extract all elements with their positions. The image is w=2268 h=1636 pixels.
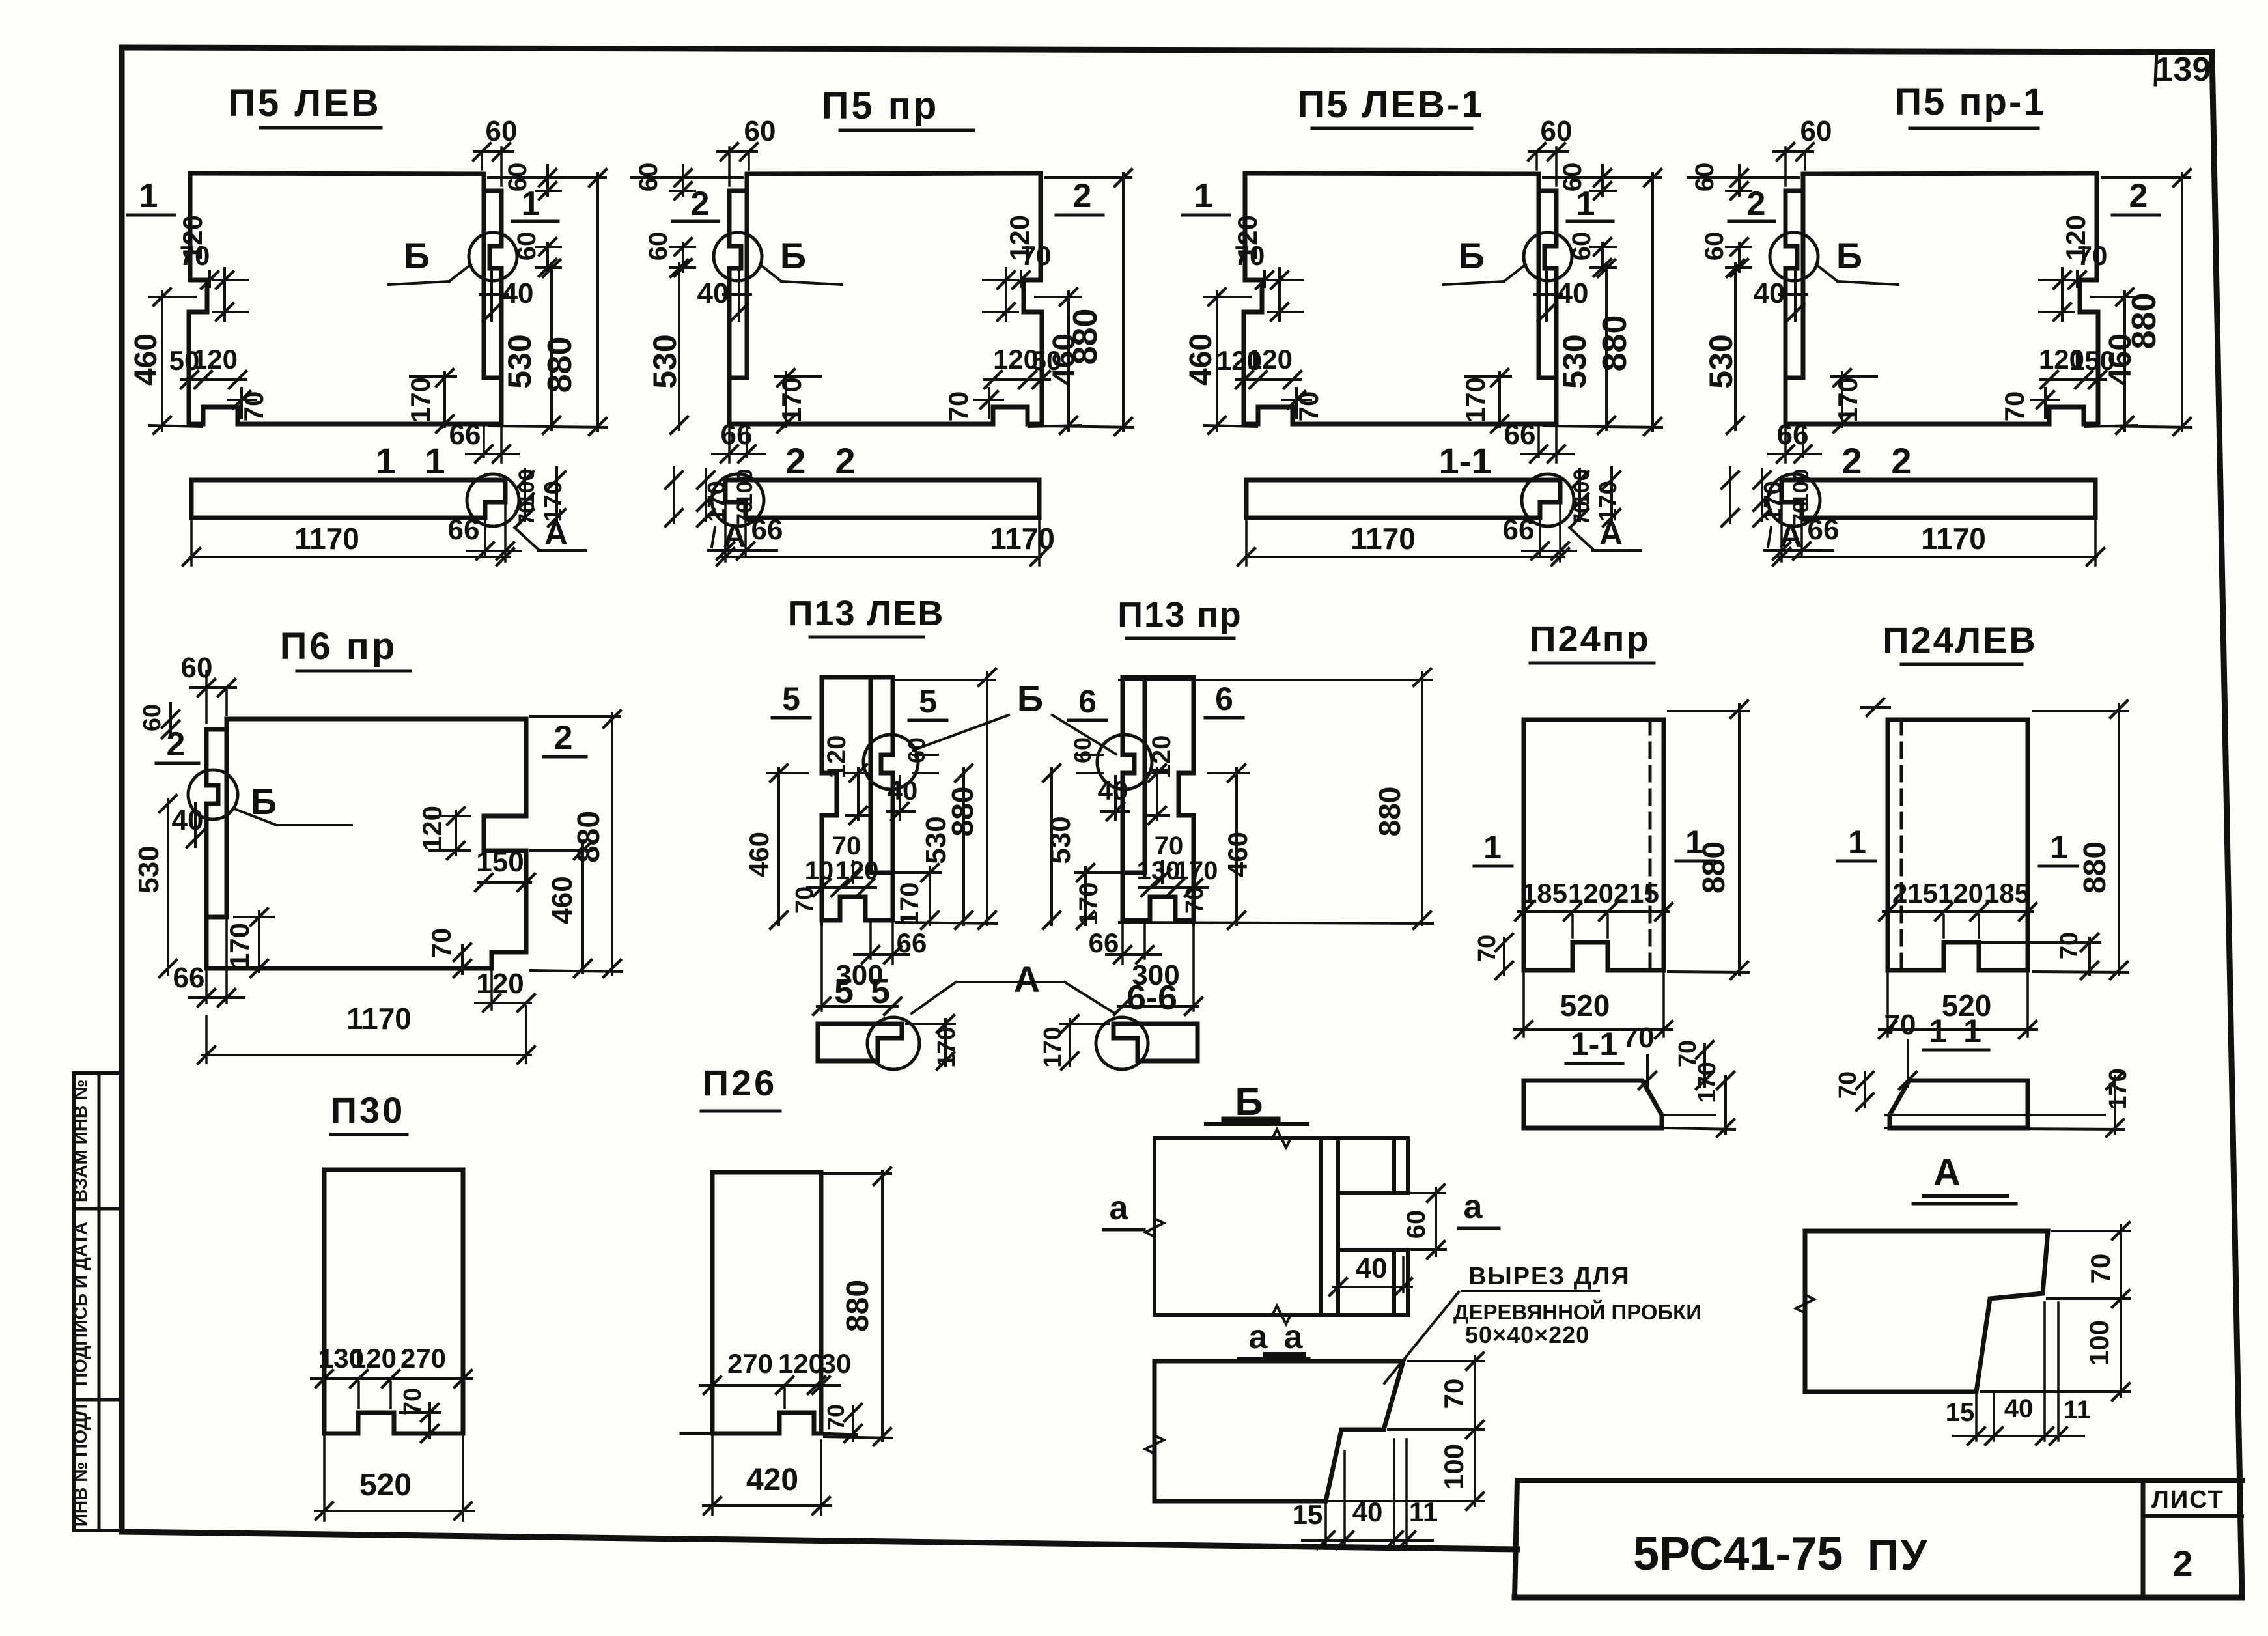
svg-text:1: 1 (1576, 185, 1595, 223)
svg-text:120: 120 (192, 344, 238, 374)
П6 пр dimension 460 right (581, 845, 584, 973)
П5 ПР plan strip outline (725, 480, 1039, 518)
П5 ПР-1 plan dimension 66 (1800, 520, 1803, 555)
svg-text:460: 460 (546, 876, 578, 924)
svg-text:880: 880 (1596, 315, 1634, 372)
svg-text:530: 530 (1044, 816, 1076, 864)
svg-text:70: 70 (1999, 391, 2030, 422)
svg-text:66: 66 (1808, 514, 1840, 546)
svg-text:6-6: 6-6 (1127, 978, 1177, 1017)
svg-text:2: 2 (691, 185, 710, 223)
svg-text:460: 460 (1222, 832, 1253, 877)
svg-text:2: 2 (554, 719, 573, 757)
svg-text:1: 1 (425, 440, 445, 481)
svg-text:70: 70 (1293, 391, 1324, 422)
svg-text:170: 170 (405, 377, 436, 423)
svg-text:70: 70 (1834, 1071, 1862, 1099)
П30 dimension 520 (323, 1437, 326, 1521)
svg-text:Б: Б (780, 235, 806, 276)
П24 пр profile section outline (1524, 1080, 1662, 1128)
svg-text:40: 40 (888, 775, 918, 806)
panel П13 ПР outline (1123, 677, 1145, 873)
П5 ПР dimension 460 left (1067, 292, 1070, 431)
svg-text:100: 100 (733, 469, 757, 506)
svg-text:880: 880 (572, 811, 606, 863)
svg-text:170: 170 (1039, 1026, 1067, 1067)
detail Б groove walls (1319, 1138, 1323, 1315)
svg-text:5: 5 (782, 681, 800, 717)
П13 ЛЕВ strip detail circle (867, 1017, 919, 1069)
П5 ПР-1 dimension 530 right (1734, 264, 1737, 430)
note leader line (1462, 1290, 1599, 1292)
П5 ЛЕВ label Б with leader (389, 281, 449, 285)
detail А outline (1805, 1231, 2048, 1392)
П5 ПР dimension 880 right (1122, 173, 1125, 431)
П5 ЛЕВ-1 section mark 1 (left) (1183, 214, 1229, 217)
svg-text:880: 880 (1373, 787, 1407, 837)
svg-text:Б: Б (1459, 235, 1485, 276)
panel П24 пр outline (1524, 720, 1664, 970)
svg-text:П24ЛЕВ: П24ЛЕВ (1883, 619, 2037, 660)
svg-text:70: 70 (514, 501, 539, 526)
П6 пр dimension 530 left (167, 800, 169, 974)
svg-text:2: 2 (785, 440, 805, 481)
svg-text:530: 530 (501, 334, 538, 388)
П24 ЛЕВ dimension 880 (2118, 705, 2120, 975)
П13 ЛЕВ strip dimension 170 (944, 1019, 947, 1065)
svg-text:11: 11 (1409, 1497, 1438, 1527)
svg-text:185: 185 (1522, 878, 1567, 909)
svg-text:5: 5 (919, 683, 937, 720)
svg-text:2: 2 (835, 440, 855, 481)
detail Б dimension 60 (1435, 1188, 1437, 1256)
П24 пр dimension 880 (1738, 705, 1741, 975)
svg-text:П30: П30 (331, 1090, 406, 1131)
svg-text:215: 215 (1614, 878, 1659, 909)
svg-text:60: 60 (181, 652, 213, 684)
svg-text:2: 2 (1747, 185, 1766, 223)
svg-text:5РС41-75: 5РС41-75 (1633, 1528, 1843, 1580)
svg-text:170: 170 (776, 377, 807, 423)
svg-text:120: 120 (1568, 878, 1614, 909)
svg-text:66: 66 (897, 927, 927, 958)
П5 ЛЕВ-1 plan detail circle А (1522, 474, 1574, 526)
svg-text:170: 170 (540, 481, 567, 522)
П5 ЛЕВ-1 label Б with leader (1444, 281, 1504, 285)
svg-text:120: 120 (778, 1348, 824, 1379)
П13 ЛЕВ dimension 880 rotated (986, 672, 988, 925)
svg-text:П5 пр-1: П5 пр-1 (1894, 81, 2046, 123)
svg-text:П5 пр: П5 пр (822, 85, 940, 127)
svg-text:60: 60 (1069, 737, 1096, 763)
svg-text:70: 70 (1438, 1379, 1469, 1409)
svg-text:А: А (1933, 1151, 1961, 1194)
П5 ПР-1 section mark 2 (right) (1729, 220, 1774, 223)
panel П30 outline (324, 1170, 463, 1433)
П5 ПР-1 dimension 70 bottom notch (2044, 388, 2047, 418)
svg-text:П13 пр: П13 пр (1117, 595, 1242, 634)
П13 ЛЕВ detail circle Б (863, 735, 918, 789)
П5 ПР plan dimensions 100 70 170 right (705, 469, 707, 521)
svg-text:150: 150 (476, 846, 524, 878)
П5 ЛЕВ-1 dimension 70 bottom notch (1295, 388, 1298, 418)
П5 ПР-1 plan dimensions 100 70 170 right (1761, 469, 1763, 521)
svg-text:2: 2 (1891, 440, 1911, 481)
svg-text:40: 40 (502, 277, 534, 309)
svg-text:70: 70 (1021, 240, 1052, 271)
П5 ПР section mark 2 (left) (1056, 214, 1103, 217)
П24 пр dimension 520 (1522, 974, 1525, 1037)
П5 ПР top reference line right (632, 176, 742, 179)
П5 ЛЕВ-1 label А with leader and underline (1569, 528, 1593, 549)
П5 ЛЕВ plan dimension 66 (484, 520, 486, 555)
svg-text:Б: Б (1017, 678, 1043, 719)
svg-text:120: 120 (993, 344, 1039, 374)
svg-text:60: 60 (1402, 1210, 1431, 1239)
П5 ПР-1 plan dimension 1170 (2094, 521, 2097, 565)
П13 ПР section marks 6 (1205, 716, 1243, 720)
svg-text:66: 66 (173, 962, 205, 994)
svg-text:100: 100 (1569, 469, 1594, 506)
П13 ПР strip dimension 170 (1069, 1019, 1071, 1065)
П5 ЛЕВ-1 dimension 530 right (1605, 264, 1608, 430)
svg-text:40: 40 (1557, 277, 1589, 309)
svg-text:1: 1 (1963, 1013, 1981, 1049)
svg-text:1170: 1170 (294, 522, 359, 556)
svg-text:ВЗАМ ИНВ №: ВЗАМ ИНВ № (70, 1080, 91, 1202)
П6 пр dimension 66 below left (205, 972, 208, 1003)
П5 ЛЕВ-1 section mark 1 (right) (1567, 220, 1613, 223)
П5 ЛЕВ-1 plan dimension 1170 (1245, 521, 1248, 565)
П6 пр detail circle Б (188, 770, 238, 819)
П5 ПР plan dimension 1170 (1038, 521, 1041, 565)
П5 ПР-1 dimension 460 left (2123, 292, 2126, 431)
svg-text:880: 880 (1697, 841, 1731, 894)
svg-text:40: 40 (1356, 1252, 1388, 1284)
panel П5 ПР elevation outline (729, 173, 1041, 378)
svg-text:70: 70 (1569, 501, 1594, 526)
left attachment column boxes (74, 1073, 122, 1530)
П13 ЛЕВ dimension 460 left (777, 769, 780, 925)
П5 ЛЕВ plan dimension 1170 (190, 521, 193, 565)
П13 ЛЕВ section marks 5 (772, 716, 810, 720)
П13 ЛЕВ dimension 300 (820, 924, 823, 1011)
svg-text:11: 11 (2064, 1396, 2091, 1424)
svg-text:120: 120 (2039, 344, 2084, 374)
svg-text:70: 70 (943, 391, 973, 422)
svg-text:60: 60 (634, 163, 663, 192)
svg-text:1170: 1170 (990, 522, 1055, 556)
svg-text:70: 70 (822, 1404, 849, 1430)
detail Б key profile right (1392, 1138, 1396, 1193)
П5 ЛЕВ top reference line right (488, 176, 599, 179)
svg-text:60: 60 (1541, 115, 1573, 147)
П5 ПР dimension 170 (bottom step) (785, 373, 787, 427)
svg-text:5: 5 (834, 972, 854, 1011)
svg-text:П13 ЛЕВ: П13 ЛЕВ (788, 594, 945, 633)
П5 ПР dimension 60/60/40 stack right (682, 165, 684, 195)
svg-text:2: 2 (167, 726, 186, 763)
svg-text:Б: Б (404, 235, 430, 276)
П5 ПР dimension 60 (top) (718, 150, 757, 153)
svg-text:185: 185 (1984, 878, 2030, 909)
П5 ЛЕВ dimension 530 right (550, 264, 553, 430)
П5 ЛЕВ-1 dimension 170 (bottom step) (1498, 373, 1501, 427)
svg-text:60: 60 (1690, 163, 1719, 192)
svg-text:139: 139 (2155, 51, 2211, 89)
svg-text:530: 530 (647, 334, 683, 388)
svg-text:66: 66 (1504, 419, 1536, 451)
svg-text:6: 6 (1078, 683, 1097, 720)
svg-text:120: 120 (351, 1343, 397, 1374)
svg-text:460: 460 (129, 333, 163, 386)
П13 ПР dimension 880 rotated (1421, 672, 1423, 925)
panel П24 ЛЕВ outline (1888, 720, 2028, 970)
svg-text:Б: Б (251, 781, 277, 822)
svg-text:530: 530 (1556, 334, 1593, 388)
detail Б outline box (1155, 1136, 1408, 1140)
svg-text:66: 66 (751, 514, 783, 546)
П5 ЛЕВ dimension 880 right (596, 173, 599, 431)
П6 пр dimension 1170 (205, 1016, 208, 1063)
svg-text:40: 40 (697, 277, 729, 309)
П5 ЛЕВ dimension 170 (bottom step) (443, 373, 446, 427)
svg-text:170: 170 (895, 882, 924, 926)
svg-text:66: 66 (721, 419, 753, 451)
П5 ПР plan detail circle А (712, 474, 764, 526)
П5 ПР label А with leader and underline (712, 528, 715, 547)
П13 ПР strip detail circle (1096, 1017, 1148, 1069)
svg-text:1170: 1170 (1351, 522, 1416, 556)
svg-text:170: 170 (1694, 1062, 1721, 1103)
svg-text:50×40×220: 50×40×220 (1465, 1321, 1589, 1348)
П6 пр dimension 880 right (611, 714, 613, 974)
detail А dimension 70 100 right (2120, 1226, 2122, 1396)
panel П26 outline (712, 1172, 821, 1433)
svg-text:120: 120 (417, 806, 447, 851)
а-а dimensions 15 40 11 bottom (1324, 1504, 1327, 1547)
П5 ПР-1 dimension 170 (bottom step) (1841, 373, 1843, 427)
svg-text:520: 520 (1560, 989, 1610, 1022)
svg-text:880: 880 (541, 337, 579, 393)
П13 ПР detail circle Б (1097, 735, 1152, 789)
svg-text:1: 1 (1483, 829, 1502, 866)
svg-text:170: 170 (1832, 377, 1863, 423)
svg-text:40: 40 (1352, 1497, 1383, 1527)
П5 ПР plan dimension 66 (744, 520, 747, 555)
svg-text:40: 40 (2004, 1394, 2034, 1423)
svg-text:70: 70 (238, 391, 269, 422)
svg-text:1-1: 1-1 (1439, 440, 1492, 481)
svg-text:ИНВ № ПОДЛ: ИНВ № ПОДЛ (70, 1404, 91, 1527)
panel П6 пр elevation outline (206, 719, 526, 917)
П5 ПР label Б with leader (781, 281, 842, 285)
svg-text:66: 66 (1089, 927, 1119, 958)
svg-text:а: а (1284, 1318, 1304, 1356)
svg-text:66: 66 (448, 514, 480, 546)
svg-text:60: 60 (1700, 232, 1729, 261)
title block ЛИСТ box (2141, 1480, 2146, 1598)
svg-text:66: 66 (1777, 419, 1809, 451)
svg-text:100: 100 (514, 469, 539, 506)
svg-text:6: 6 (1215, 681, 1233, 717)
П5 ЛЕВ-1 detail circle Б (1524, 233, 1572, 281)
П5 ПР dimension 120 left top (1005, 268, 1007, 320)
svg-text:120: 120 (1938, 878, 1983, 909)
П5 ПР dimension 530 right (678, 264, 680, 430)
П13 ЛЕВ section strip outline (818, 1024, 902, 1061)
svg-text:40: 40 (172, 804, 204, 836)
panel П13 ЛЕВ outline (871, 677, 893, 873)
П6 пр label Б with leader (234, 809, 277, 825)
П13 ЛЕВ dimension 530 rotated (962, 769, 965, 925)
svg-text:П26: П26 (703, 1062, 777, 1103)
svg-text:1-1: 1-1 (1571, 1026, 1617, 1062)
drawing frame border (122, 48, 2212, 52)
П5 ПР-1 plan detail circle А (1768, 474, 1820, 526)
svg-text:2: 2 (2172, 1543, 2192, 1584)
svg-text:70: 70 (2085, 1254, 2116, 1284)
П24 пр section marks 1 (1474, 865, 1512, 868)
П13 ПР dimension 66 below (1143, 924, 1146, 959)
section а-а outline (1155, 1361, 1403, 1501)
svg-text:1: 1 (522, 185, 540, 223)
svg-text:1: 1 (139, 177, 158, 215)
svg-text:Б: Б (1836, 235, 1862, 276)
svg-text:П5 ЛЕВ-1: П5 ЛЕВ-1 (1298, 83, 1485, 126)
П24 ЛЕВ profile section outline (1890, 1080, 2028, 1128)
П24 ЛЕВ section marks 1 (2039, 865, 2077, 868)
svg-text:270: 270 (400, 1343, 446, 1374)
svg-text:170: 170 (1595, 481, 1622, 522)
П5 ПР-1 dimension 60 (top) (1774, 150, 1813, 153)
П5 ЛЕВ-1 dimension 60/60/40 stack right (1601, 165, 1604, 195)
panel П5 ПР-1 elevation outline (1785, 173, 2097, 378)
svg-text:66: 66 (449, 419, 481, 451)
svg-text:ПУ: ПУ (1868, 1530, 1929, 1579)
П24 пр hidden line (dashed) (1649, 720, 1652, 970)
svg-text:70: 70 (1623, 1022, 1655, 1054)
П5 ЛЕВ-1 dimension 120 left top (1278, 268, 1281, 320)
П5 ЛЕВ-1 dimension 880 right (1651, 173, 1654, 431)
П13 ЛЕВ dimension 66 below (869, 924, 872, 959)
svg-text:60: 60 (1567, 232, 1596, 261)
П5 ПР-1 dimension 66 below (1802, 427, 1804, 457)
svg-text:880: 880 (945, 787, 979, 837)
svg-text:120: 120 (1247, 344, 1293, 374)
svg-text:530: 530 (133, 845, 165, 893)
svg-text:70: 70 (1884, 1009, 1916, 1041)
П5 ПР-1 detail circle Б (1770, 233, 1818, 281)
П5 ЛЕВ-1 dimension 60 (top) (1529, 150, 1568, 153)
svg-text:70: 70 (180, 240, 210, 271)
svg-text:70: 70 (1235, 240, 1265, 271)
П5 ЛЕВ dimension 120 left top (223, 268, 226, 320)
svg-text:ДЕРЕВЯННОЙ ПРОБКИ: ДЕРЕВЯННОЙ ПРОБКИ (1453, 1299, 1701, 1324)
П13 ПР dimension 300 (1192, 924, 1195, 1011)
svg-text:66: 66 (1503, 514, 1535, 546)
svg-text:ВЫРЕЗ ДЛЯ: ВЫРЕЗ ДЛЯ (1468, 1263, 1631, 1290)
svg-text:а: а (1249, 1318, 1268, 1356)
svg-text:100: 100 (1438, 1444, 1469, 1489)
svg-text:1: 1 (1194, 177, 1213, 215)
svg-text:1: 1 (375, 440, 395, 481)
П5 ЛЕВ-1 top reference line right (1543, 176, 1654, 179)
svg-text:П6 пр: П6 пр (280, 625, 398, 668)
svg-text:1170: 1170 (1921, 522, 1986, 556)
П5 ЛЕВ detail circle Б (469, 233, 517, 281)
svg-text:170: 170 (933, 1026, 960, 1067)
svg-text:ЛИСТ: ЛИСТ (2151, 1486, 2224, 1514)
detail А dimensions 15 40 11 bottom (1975, 1395, 1978, 1441)
П6 пр dimension 60 top (190, 686, 236, 689)
svg-text:530: 530 (1703, 334, 1739, 388)
panel П5 ЛЕВ-1 elevation outline (1245, 173, 1556, 378)
П5 ПР-1 section mark 2 (left) (2112, 214, 2159, 217)
П5 ПР-1 dimension 880 right (2181, 173, 2183, 431)
П5 ПР-1 dimension 120 left top (2061, 268, 2064, 320)
П5 ЛЕВ dimension 460 left (161, 292, 163, 431)
svg-text:40: 40 (1754, 277, 1785, 309)
svg-text:60: 60 (1800, 115, 1832, 147)
П5 ЛЕВ-1 plan dimension 66 (1539, 520, 1541, 555)
П5 ЛЕВ dimension 60/60/40 stack right (546, 165, 549, 195)
svg-text:2: 2 (1841, 440, 1862, 481)
svg-text:100: 100 (1789, 469, 1813, 506)
П6 пр dimension 170 bottom left (258, 912, 260, 972)
П5 ПР-1 plan strip outline (1782, 480, 2095, 518)
П5 ЛЕВ dimension 66 below (483, 427, 485, 457)
П5 ЛЕВ section mark 1 (left) (128, 214, 175, 217)
svg-text:270: 270 (727, 1348, 773, 1379)
svg-text:60: 60 (644, 232, 673, 261)
svg-text:15: 15 (1293, 1499, 1323, 1530)
title block box (1517, 1478, 2242, 1483)
П13 ПР dimension 460 left (1235, 769, 1238, 925)
П5 ПР-1 label А with leader and underline (1768, 528, 1771, 547)
П5 ПР detail circle Б (714, 233, 762, 281)
П24 ЛЕВ hidden line (dashed) (1900, 720, 1903, 970)
svg-text:880: 880 (841, 1280, 875, 1332)
svg-text:170: 170 (224, 923, 255, 968)
svg-text:П5 ЛЕВ: П5 ЛЕВ (228, 82, 381, 124)
svg-text:170: 170 (1074, 882, 1103, 926)
П5 ЛЕВ plan dimensions 100 70 170 right (524, 469, 526, 521)
svg-text:П24пр: П24пр (1530, 618, 1651, 659)
П5 ЛЕВ-1 plan dimensions 100 70 170 right (1578, 469, 1581, 521)
П5 ПР-1 top reference line right (1688, 176, 1799, 179)
svg-text:70: 70 (2077, 240, 2108, 271)
П5 ЛЕВ dimension 70 bottom notch (240, 388, 243, 418)
svg-text:70: 70 (399, 1388, 427, 1415)
svg-text:60: 60 (486, 115, 518, 147)
П5 ЛЕВ-1 dimension 66 below (1537, 427, 1540, 457)
svg-text:100: 100 (2084, 1320, 2114, 1366)
П5 ПР section mark 2 (right) (673, 220, 718, 223)
svg-text:2: 2 (1073, 177, 1092, 215)
svg-text:1170: 1170 (346, 1002, 412, 1036)
svg-text:ПОДПИСЬ И ДАТА: ПОДПИСЬ И ДАТА (70, 1222, 91, 1386)
П5 ЛЕВ plan detail circle А (467, 474, 519, 526)
а-а dimension 70 100 right (1474, 1356, 1476, 1506)
П5 ЛЕВ-1 plan strip outline (1246, 480, 1560, 518)
svg-text:1: 1 (1929, 1013, 1947, 1049)
П5 ЛЕВ dimension 60 (top) (474, 150, 513, 153)
svg-text:2: 2 (2129, 177, 2148, 215)
П26 dimension 880 (881, 1171, 884, 1441)
svg-text:А: А (1014, 959, 1040, 1000)
П13 ПР section strip outline (1113, 1024, 1197, 1061)
